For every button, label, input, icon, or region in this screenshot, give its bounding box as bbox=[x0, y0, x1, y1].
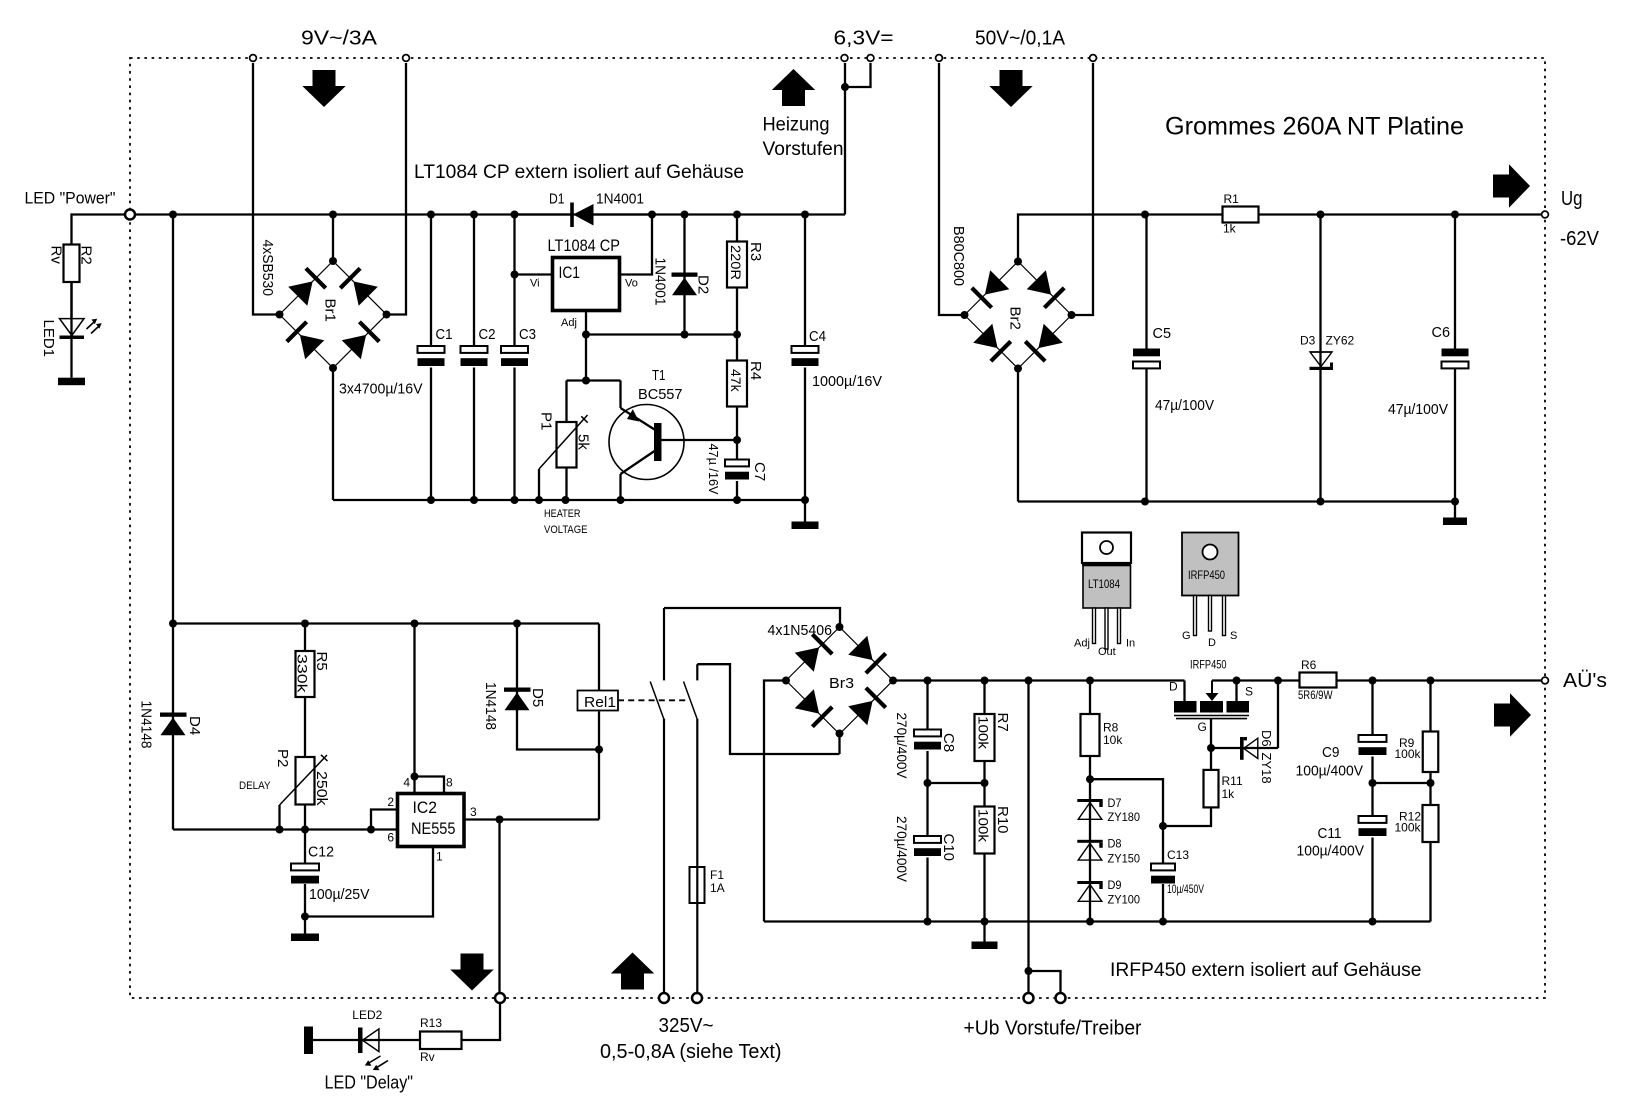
svg-text:270µ/400V: 270µ/400V bbox=[894, 816, 910, 883]
svg-text:DELAY: DELAY bbox=[239, 780, 271, 792]
wire to R2 bbox=[72, 215, 125, 245]
svg-text:LED1: LED1 bbox=[40, 320, 57, 358]
svg-text:G: G bbox=[1198, 720, 1207, 734]
arrow into 50V input bbox=[1000, 70, 1023, 87]
svg-text:R4: R4 bbox=[747, 361, 764, 380]
svg-text:50V~/0,1A: 50V~/0,1A bbox=[975, 28, 1066, 50]
terminal Ug bbox=[1542, 211, 1549, 218]
svg-text:D4: D4 bbox=[186, 716, 203, 735]
mosfet gate lines bbox=[1174, 715, 1249, 717]
svg-text:S: S bbox=[1230, 630, 1237, 642]
fuse F1 bbox=[690, 867, 705, 903]
terminal 9V b bbox=[403, 55, 410, 62]
wire R4 to base node bbox=[736, 407, 738, 441]
svg-text:C6: C6 bbox=[1432, 324, 1451, 341]
arrow delay out bbox=[461, 954, 484, 971]
svg-text:Ug: Ug bbox=[1561, 188, 1583, 210]
svg-text:R5: R5 bbox=[313, 652, 330, 671]
wire R2 to LED1 bbox=[70, 282, 72, 319]
svg-text:IRFP450 extern isoliert auf Ge: IRFP450 extern isoliert auf Gehäuse bbox=[1110, 960, 1422, 981]
wire output rail bbox=[893, 679, 1185, 681]
svg-text:Br3: Br3 bbox=[829, 675, 854, 692]
zener D2 bbox=[683, 215, 685, 335]
wire pin3 to border bbox=[498, 820, 500, 994]
svg-text:3x4700µ/16V: 3x4700µ/16V bbox=[339, 381, 423, 398]
svg-text:AÜ's: AÜ's bbox=[1563, 670, 1607, 692]
svg-text:C13: C13 bbox=[1167, 848, 1189, 862]
wire C4 to ground bbox=[804, 500, 806, 522]
resistor R2 Rv bbox=[64, 245, 80, 283]
svg-text:HEATER: HEATER bbox=[544, 508, 581, 520]
svg-text:1N4148: 1N4148 bbox=[138, 701, 155, 749]
ground C12 bbox=[291, 934, 319, 942]
capacitor C5 bbox=[1145, 215, 1147, 349]
svg-text:1N4001: 1N4001 bbox=[652, 258, 669, 306]
svg-text:B80C800: B80C800 bbox=[950, 226, 967, 286]
wire pin2 bbox=[371, 810, 398, 830]
svg-text:Out: Out bbox=[1098, 646, 1116, 658]
svg-text:D: D bbox=[1208, 637, 1216, 649]
svg-text:5R6/9W: 5R6/9W bbox=[1298, 688, 1333, 702]
wire P1 wiper down bbox=[538, 469, 540, 500]
wire Adj bbox=[585, 311, 587, 335]
svg-text:P2: P2 bbox=[274, 749, 291, 767]
svg-text:LED "Delay": LED "Delay" bbox=[325, 1073, 414, 1093]
ground return rail bbox=[972, 942, 998, 950]
wire pin8 bbox=[415, 777, 445, 794]
svg-text:47µ /16V: 47µ /16V bbox=[706, 444, 721, 495]
wire Br2 top to -rail bbox=[1018, 215, 1145, 262]
package IRFP450 body bbox=[1182, 533, 1239, 596]
svg-text:NE555: NE555 bbox=[411, 819, 456, 838]
svg-text:C12: C12 bbox=[308, 844, 334, 861]
wire -62V rail bbox=[1145, 213, 1223, 215]
wire Br1 bottom to gnd rail bbox=[332, 368, 334, 500]
svg-text:C5: C5 bbox=[1153, 325, 1172, 342]
node bottom rail junctions bbox=[427, 496, 435, 504]
wire Vi bbox=[515, 273, 553, 275]
svg-text:Br1: Br1 bbox=[322, 299, 339, 322]
capacitor C13 bbox=[1162, 826, 1164, 864]
mosfet gate wire bbox=[1210, 719, 1212, 748]
svg-text:100µ/400V: 100µ/400V bbox=[1297, 843, 1365, 860]
terminal LED Power bbox=[125, 210, 135, 220]
svg-text:C9: C9 bbox=[1322, 744, 1340, 761]
relay contact 1 bbox=[663, 608, 665, 680]
wire pin1 bbox=[305, 847, 433, 917]
svg-text:IRFP450: IRFP450 bbox=[1188, 568, 1225, 582]
svg-text:D5: D5 bbox=[529, 688, 546, 707]
wire R9 to mid bbox=[1429, 772, 1431, 783]
terminal +Ub a bbox=[1024, 993, 1034, 1003]
wire rail to lower section bbox=[172, 215, 174, 624]
resistor R6 bbox=[1300, 673, 1337, 688]
capacitor C7 bbox=[736, 440, 738, 460]
svg-text:R13: R13 bbox=[420, 1016, 442, 1030]
svg-text:P1: P1 bbox=[538, 412, 555, 430]
wire C8 C10 mid bbox=[928, 782, 985, 784]
wire right gnd rail bbox=[1145, 500, 1455, 502]
package LT1084 tab bbox=[1082, 533, 1131, 564]
wire Vo bbox=[620, 215, 653, 275]
svg-text:D6: D6 bbox=[1259, 730, 1274, 747]
svg-text:Heizung: Heizung bbox=[763, 115, 830, 136]
svg-text:0,5-0,8A (siehe Text): 0,5-0,8A (siehe Text) bbox=[600, 1041, 782, 1063]
svg-text:5k: 5k bbox=[575, 434, 592, 450]
terminal AUe bbox=[1542, 677, 1549, 684]
svg-text:VOLTAGE: VOLTAGE bbox=[544, 524, 588, 536]
svg-text:LT1084: LT1084 bbox=[1088, 577, 1120, 591]
wire contact2 to Br3 bottom bbox=[697, 664, 839, 754]
mosfet T2 IRFP450 drain bbox=[1183, 681, 1185, 702]
svg-text:1: 1 bbox=[436, 850, 443, 864]
svg-text:ZY62: ZY62 bbox=[1326, 334, 1355, 348]
arrow out heater supply bbox=[772, 69, 815, 90]
wire C12 to ground bbox=[304, 917, 306, 934]
wire pin4 bbox=[413, 624, 415, 794]
transistor T1 BC557 bbox=[609, 405, 684, 480]
svg-text:Vi: Vi bbox=[530, 278, 540, 290]
svg-text:10k: 10k bbox=[1103, 733, 1123, 747]
zener D6 bbox=[1211, 747, 1278, 749]
svg-text:100k: 100k bbox=[1395, 747, 1422, 761]
svg-text:1k: 1k bbox=[1222, 787, 1236, 801]
wire 50V a to Br2 bbox=[939, 63, 965, 315]
resistor R8 bbox=[1089, 681, 1091, 715]
svg-text:1000µ/16V: 1000µ/16V bbox=[812, 373, 882, 390]
svg-text:3: 3 bbox=[470, 805, 477, 819]
svg-text:C4: C4 bbox=[809, 328, 826, 345]
svg-text:325V~: 325V~ bbox=[659, 1015, 714, 1037]
wire R3 to adj bbox=[736, 288, 738, 335]
node Br3 corners bbox=[836, 623, 844, 631]
svg-text:D2: D2 bbox=[695, 275, 712, 294]
relay actuator dashed bbox=[618, 699, 686, 701]
zener D3 bbox=[1319, 215, 1321, 502]
svg-text:C1: C1 bbox=[436, 326, 453, 343]
svg-text:9V~/3A: 9V~/3A bbox=[301, 28, 378, 50]
resistor R7 bbox=[983, 681, 985, 715]
svg-text:270µ/400V: 270µ/400V bbox=[894, 713, 910, 780]
diode D5 bbox=[517, 624, 599, 750]
svg-text:100k: 100k bbox=[1395, 821, 1422, 835]
node rail junctions bbox=[169, 211, 177, 219]
svg-text:47µ/100V: 47µ/100V bbox=[1388, 401, 1448, 418]
arrow AUe out bbox=[1494, 704, 1511, 727]
op IC1 LT1084 bbox=[553, 258, 620, 311]
wire +Ub bbox=[1027, 681, 1029, 994]
svg-text:10µ/450V: 10µ/450V bbox=[1167, 882, 1204, 896]
LED LED1 bbox=[70, 282, 72, 339]
terminal 50V a bbox=[936, 55, 943, 62]
svg-text:LT1084 CP extern isoliert auf: LT1084 CP extern isoliert auf Gehäuse bbox=[414, 162, 744, 183]
ground C6 bbox=[1443, 518, 1467, 526]
svg-text:R7: R7 bbox=[994, 713, 1011, 732]
capacitor C11 bbox=[1371, 783, 1373, 816]
mosfet body arrow bbox=[1211, 681, 1213, 701]
T1 base bar bbox=[654, 423, 662, 461]
ground C4 bbox=[792, 522, 819, 530]
wire return rail bbox=[764, 920, 1431, 922]
wire Adj net bbox=[586, 333, 737, 335]
terminal LED delay bbox=[495, 993, 505, 1003]
svg-text:G: G bbox=[1182, 630, 1191, 642]
terminal +Ub b bbox=[1056, 993, 1066, 1003]
bridge rectifier Br2 bbox=[965, 262, 1072, 369]
wire R12 to return bbox=[1429, 842, 1431, 922]
wire LED2 to bar bbox=[313, 1039, 358, 1041]
svg-text:2: 2 bbox=[387, 795, 394, 809]
wire trigger rail bbox=[173, 828, 398, 830]
capacitor C9 bbox=[1371, 681, 1373, 736]
wire R8 to zeners bbox=[1089, 756, 1091, 922]
mosfet pads bbox=[1174, 701, 1197, 713]
svg-text:C7: C7 bbox=[751, 462, 768, 481]
svg-text:Br2: Br2 bbox=[1007, 307, 1024, 330]
mosfet source bbox=[1235, 681, 1237, 702]
svg-text:1N4148: 1N4148 bbox=[482, 682, 499, 730]
ground LED1 bbox=[58, 378, 85, 386]
svg-text:Grommes 260A NT Platine: Grommes 260A NT Platine bbox=[1165, 113, 1464, 141]
svg-text:100k: 100k bbox=[976, 716, 992, 750]
svg-text:Rv: Rv bbox=[48, 246, 65, 265]
svg-text:1k: 1k bbox=[1223, 222, 1237, 236]
svg-text:D7: D7 bbox=[1108, 796, 1122, 810]
wire R10 to return bbox=[983, 854, 985, 922]
wire P1/T1 branch bbox=[567, 379, 621, 381]
svg-text:C2: C2 bbox=[479, 326, 496, 343]
svg-text:In: In bbox=[1126, 638, 1135, 650]
svg-text:4xSB530: 4xSB530 bbox=[259, 240, 276, 297]
wire source rail bbox=[1212, 679, 1300, 681]
diode D1 bbox=[515, 213, 573, 215]
svg-text:100µ/25V: 100µ/25V bbox=[309, 886, 370, 903]
svg-text:Rv: Rv bbox=[420, 1050, 435, 1064]
wire P2 wiper down bbox=[278, 805, 280, 830]
wire Br3 left to return bbox=[764, 681, 786, 922]
relay contact 2 bbox=[696, 664, 698, 680]
wire 9V b to Br1 right bbox=[387, 63, 407, 315]
wire 50V b to Br2 bbox=[1072, 63, 1094, 315]
node +Ub branch bbox=[1025, 967, 1033, 975]
svg-text:BC557: BC557 bbox=[638, 386, 683, 403]
svg-text:Rel1: Rel1 bbox=[584, 694, 616, 711]
terminal 325V a bbox=[659, 993, 669, 1003]
svg-text:T1: T1 bbox=[652, 367, 666, 384]
wire Adj down bbox=[585, 335, 587, 381]
wire +Ub b bbox=[1029, 971, 1061, 993]
svg-text:LED2: LED2 bbox=[352, 1008, 382, 1022]
svg-text:1N4001: 1N4001 bbox=[596, 191, 644, 208]
svg-text:R3: R3 bbox=[747, 242, 764, 261]
arrow into 9V input bbox=[313, 70, 336, 87]
wire main +rail bbox=[130, 213, 845, 215]
svg-text:8: 8 bbox=[446, 776, 453, 790]
resistor R9 bbox=[1429, 681, 1431, 732]
svg-text:R6: R6 bbox=[1301, 658, 1317, 672]
svg-text:100µ/400V: 100µ/400V bbox=[1296, 763, 1364, 780]
wire P1 bottom bbox=[565, 468, 567, 501]
resistor R11 bbox=[1210, 748, 1212, 770]
terminal 6,3V a bbox=[841, 55, 848, 62]
svg-text:IC1: IC1 bbox=[559, 263, 581, 282]
svg-text:R2: R2 bbox=[78, 246, 95, 265]
svg-text:S: S bbox=[1245, 685, 1253, 699]
svg-text:1A: 1A bbox=[710, 881, 725, 895]
svg-text:LT1084 CP: LT1084 CP bbox=[548, 236, 621, 255]
relay Rel1 bbox=[578, 691, 619, 711]
package LT1084 pins bbox=[1093, 608, 1096, 644]
svg-text:D: D bbox=[1169, 680, 1178, 694]
svg-text:-62V: -62V bbox=[1560, 228, 1600, 250]
package IRFP450 pins bbox=[1194, 596, 1197, 636]
terminal 325V b bbox=[692, 993, 702, 1003]
pot P2 bbox=[296, 757, 315, 805]
capacitor C1 bbox=[430, 215, 432, 347]
svg-text:+Ub Vorstufe/Treiber: +Ub Vorstufe/Treiber bbox=[964, 1018, 1142, 1040]
bridge rectifier Br1 bbox=[280, 261, 387, 368]
arrow 325V in bbox=[611, 953, 654, 974]
svg-text:4: 4 bbox=[403, 776, 410, 790]
capacitor C4 bbox=[804, 215, 806, 347]
LED1 light arrows bbox=[87, 322, 95, 329]
svg-text:Adj: Adj bbox=[561, 317, 577, 329]
resistor R4 bbox=[736, 335, 738, 361]
wire return to ground bbox=[983, 922, 985, 942]
wire C6 to ground bbox=[1454, 502, 1456, 518]
zener D7 bbox=[1077, 799, 1102, 802]
svg-text:47k: 47k bbox=[728, 369, 744, 393]
zener D8 bbox=[1077, 840, 1102, 843]
svg-text:R1: R1 bbox=[1224, 192, 1240, 206]
terminal 6,3V b bbox=[867, 55, 874, 62]
pot P1 bbox=[557, 422, 577, 468]
svg-text:6: 6 bbox=[387, 831, 394, 845]
svg-text:Adj: Adj bbox=[1074, 638, 1090, 650]
svg-text:330k: 330k bbox=[295, 654, 311, 694]
wire R8 to C13 bbox=[1090, 779, 1163, 826]
svg-text:220R: 220R bbox=[728, 245, 744, 280]
svg-text:ZY100: ZY100 bbox=[1108, 893, 1141, 907]
capacitor C3 bbox=[513, 215, 515, 347]
svg-text:C10: C10 bbox=[940, 834, 957, 862]
svg-text:Vorstufen: Vorstufen bbox=[763, 139, 844, 160]
wire left bottom rail bbox=[333, 499, 805, 501]
wire Br2 bottom to gnd rail bbox=[1017, 369, 1019, 502]
svg-text:4x1N5406: 4x1N5406 bbox=[768, 622, 833, 639]
resistor R1 bbox=[1223, 207, 1259, 223]
zener D9 bbox=[1077, 881, 1102, 884]
timer IC2 NE555 bbox=[398, 794, 465, 847]
T1 collector bbox=[621, 451, 655, 474]
wire relay coil bbox=[598, 624, 600, 691]
wire R7 to mid bbox=[983, 761, 985, 783]
terminal 50V b bbox=[1090, 55, 1097, 62]
arrow Ug out bbox=[1493, 175, 1510, 198]
node Br2 corners bbox=[1014, 258, 1022, 266]
capacitor C2 bbox=[473, 215, 475, 347]
svg-text:C3: C3 bbox=[519, 326, 536, 343]
wire R1 to Ug bbox=[1259, 213, 1546, 215]
capacitor C12 bbox=[304, 830, 306, 864]
svg-text:C11: C11 bbox=[1318, 825, 1342, 842]
dotted border frame bbox=[130, 58, 1545, 998]
resistor R5 bbox=[304, 624, 306, 652]
wire lower top rail bbox=[173, 622, 599, 624]
svg-text:D9: D9 bbox=[1108, 878, 1122, 892]
node Br1 corners bbox=[329, 257, 337, 265]
resistor R13 bbox=[420, 1032, 462, 1050]
resistor R3 bbox=[736, 215, 738, 242]
svg-text:D3: D3 bbox=[1300, 334, 1316, 348]
wire R6 to AUe bbox=[1337, 679, 1546, 681]
T1 emitter bbox=[621, 408, 655, 430]
bridge rectifier Br3 bbox=[786, 627, 893, 734]
svg-text:C8: C8 bbox=[940, 733, 957, 752]
svg-text:D8: D8 bbox=[1108, 837, 1122, 851]
wire delay terminal to R13 bbox=[462, 1003, 501, 1040]
svg-text:F1: F1 bbox=[710, 868, 724, 882]
svg-text:IRFP450: IRFP450 bbox=[1190, 658, 1227, 672]
wire C9 C11 mid bbox=[1373, 782, 1431, 784]
package LT1084 body bbox=[1082, 562, 1131, 566]
svg-text:47µ/100V: 47µ/100V bbox=[1155, 397, 1214, 414]
LED LED2 bbox=[363, 1039, 421, 1041]
wire contact1 to Br3 top bbox=[664, 608, 840, 627]
svg-text:6,3V=: 6,3V= bbox=[834, 28, 894, 50]
terminal 9V a bbox=[250, 55, 257, 62]
LED2 terminal bar bbox=[304, 1027, 313, 1055]
capacitor C6 bbox=[1454, 215, 1456, 349]
T1 base wire bbox=[662, 439, 738, 441]
svg-text:100k: 100k bbox=[976, 809, 992, 843]
wire D6 to source rail bbox=[1277, 681, 1279, 749]
svg-text:ZY18: ZY18 bbox=[1259, 753, 1274, 784]
svg-text:250k: 250k bbox=[313, 771, 330, 806]
LED2 light arrows bbox=[368, 1056, 381, 1064]
svg-text:IC2: IC2 bbox=[413, 798, 438, 817]
wire pin3 bbox=[464, 818, 599, 820]
capacitor C8 bbox=[926, 681, 928, 730]
wire P2 bottom bbox=[304, 805, 306, 830]
wire R11 to C13 bbox=[1163, 808, 1211, 827]
wire 6,3V bbox=[844, 63, 846, 215]
svg-text:R10: R10 bbox=[994, 806, 1011, 834]
wire Br1 top to rail bbox=[332, 215, 334, 262]
svg-text:LED "Power": LED "Power" bbox=[25, 189, 116, 208]
capacitor C10 bbox=[926, 783, 928, 836]
wire 9V a to Br1 left bbox=[253, 63, 280, 315]
diode D4 bbox=[172, 624, 174, 830]
resistor R10 bbox=[983, 783, 985, 807]
resistor R12 bbox=[1429, 783, 1431, 805]
svg-text:ZY150: ZY150 bbox=[1108, 852, 1141, 866]
svg-text:D1: D1 bbox=[549, 191, 565, 208]
wire R5 to P2 bbox=[304, 697, 306, 757]
svg-text:ZY180: ZY180 bbox=[1108, 810, 1141, 824]
svg-text:Vo: Vo bbox=[625, 278, 638, 290]
wire LED1 to ground bbox=[70, 339, 72, 378]
svg-text:R11: R11 bbox=[1222, 774, 1243, 788]
